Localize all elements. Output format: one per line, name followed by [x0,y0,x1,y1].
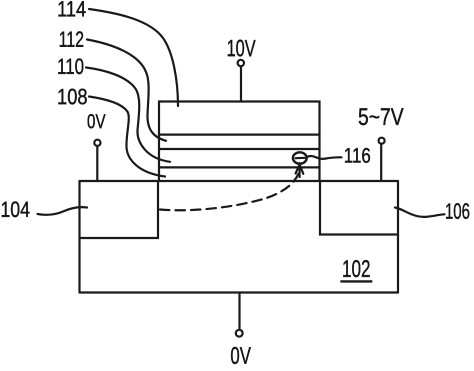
svg-text:116: 116 [344,145,371,168]
substrate terminal wire [238,293,240,330]
svg-text:5~7V: 5~7V [358,104,404,131]
gate terminal circle [238,60,244,66]
svg-text:112: 112 [59,27,85,52]
arrowhead pointing at electron [296,165,304,177]
svg-text:110: 110 [57,54,84,79]
gate layer line 1 (bottom of 114 gate) [159,134,320,136]
drain region 106 box [320,181,398,235]
leader line for 108 [89,97,165,177]
leader line for 106 [395,208,445,217]
gate layer line 2 (bottom of 112 oxide) [159,148,320,150]
source terminal wire [96,146,98,181]
drain terminal wire [380,144,382,181]
leader line for 116 [307,156,342,159]
gate stack outline [159,102,320,182]
svg-text:10V: 10V [227,35,256,61]
svg-text:102: 102 [342,256,371,283]
electron minus sign [296,157,305,160]
electron injection dashed path [160,171,300,210]
svg-text:108: 108 [57,84,88,109]
leader line for 114 [89,9,178,106]
leader line for 110 [86,68,170,162]
drain terminal circle [379,138,385,144]
electron circle 116 [293,152,307,163]
svg-text:106: 106 [445,199,470,224]
underline of 102 [340,280,372,282]
svg-text:114: 114 [57,0,86,21]
gate layer line 3 (bottom of 110 nitride) [159,166,320,168]
substrate terminal circle [236,330,243,337]
svg-text:104: 104 [0,197,30,222]
svg-text:0V: 0V [87,111,106,133]
substrate 102 outline [80,181,399,293]
gate terminal wire [240,67,242,102]
leader line for 104 [38,207,88,215]
leader line for 112 [87,40,166,141]
source region 104 box [80,181,158,238]
source terminal circle [94,140,100,146]
svg-text:0V: 0V [230,343,251,366]
